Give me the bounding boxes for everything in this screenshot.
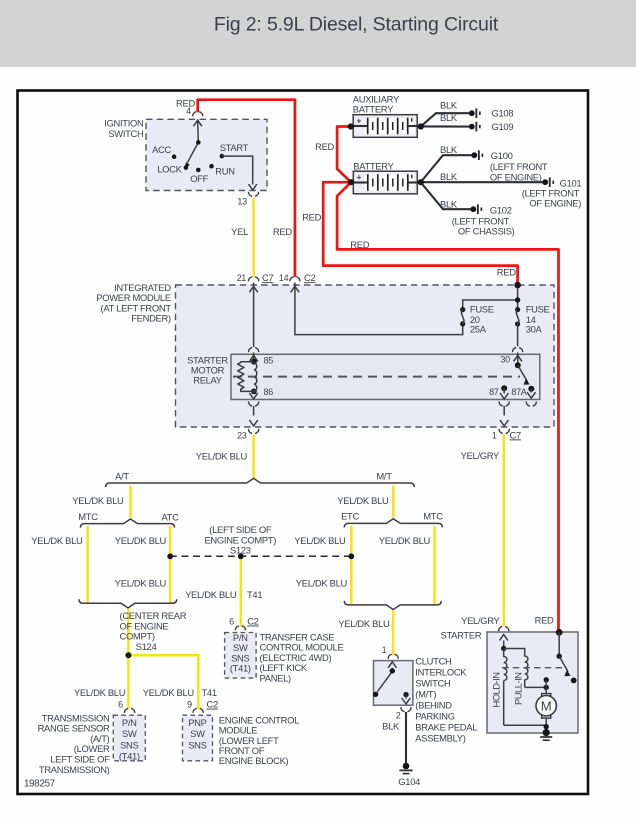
IPM connector C2 pin 14 [290,277,300,282]
ground G108 [469,108,513,119]
svg-text:YEL/DK BLU: YEL/DK BLU [337,495,389,506]
svg-text:ASSEMBLY): ASSEMBLY) [415,733,465,744]
relay pin 87A exit arrow [530,389,532,393]
svg-text:INTERLOCK: INTERLOCK [415,667,467,678]
clutch interlock switch connector pin 2 [401,707,411,712]
svg-text:21: 21 [237,273,247,283]
wire relay 87 to IPM pin 1 [503,406,505,416]
split brace MTC | ATC [80,519,174,528]
svg-text:(CENTER REAR: (CENTER REAR [120,610,187,621]
svg-text:M/T: M/T [376,471,392,482]
wire BLK battery to G101 [421,181,543,183]
svg-text:YEL/DK BLU: YEL/DK BLU [72,495,124,506]
svg-text:SNS: SNS [188,739,206,750]
split brace ETC | MTC [344,519,442,528]
svg-text:(M/T): (M/T) [415,689,436,700]
svg-text:RUN: RUN [215,166,234,177]
svg-text:FUSE: FUSE [470,303,494,314]
IPM exit connector pin 23 [249,429,259,434]
TRS connector pin 6 [125,708,135,713]
wire ETC [350,526,353,604]
svg-text:RED: RED [535,614,554,625]
svg-text:P/N: P/N [122,717,137,728]
wire YEL/GRY from IPM 1 to starter [503,435,506,627]
IPM exit connector C7 pin 1 [499,429,509,434]
svg-text:23: 23 [237,430,247,440]
svg-text:ETC: ETC [341,511,359,522]
svg-text:RED: RED [497,267,516,278]
split brace A/T | M/T [106,478,415,487]
svg-text:YEL/DK BLU: YEL/DK BLU [338,618,390,629]
wire ATC [169,526,172,603]
svg-text:T41: T41 [247,589,262,600]
svg-text:OF ENGINE): OF ENGINE) [490,171,542,182]
svg-text:ACC: ACC [152,144,171,155]
svg-text:6: 6 [229,617,234,627]
relay coil (pins 85-86) [238,359,274,397]
transfer case control module box [225,633,257,679]
svg-text:YEL/GRY: YEL/GRY [461,615,500,626]
IPM connector C7 pin 21 [249,277,259,282]
svg-text:1: 1 [382,645,387,655]
svg-text:BLK: BLK [440,171,458,182]
svg-text:RED: RED [350,239,369,250]
ignition switch box [146,119,267,190]
starter motor relay box [231,354,540,399]
wire MTC left [86,526,89,603]
svg-text:G108: G108 [492,108,514,119]
IPM internal feed junction to fuses [463,285,518,310]
wire YEL/DK BLU from IPM 23 [252,435,255,479]
relay switch arm 30 to 87A [515,362,521,368]
wire BLK aux battery to G109 [421,125,470,127]
svg-text:C7: C7 [510,429,521,440]
wire BLK battery to G100 [421,155,473,182]
svg-text:PNP: PNP [188,717,206,728]
hold-in coil [504,649,507,681]
starter solenoid switch [556,629,563,636]
svg-text:RELAY: RELAY [193,375,223,386]
ECM connector C2 pin 9 [193,708,203,713]
ground G102 (left front of chassis) [470,204,511,215]
starter ground [540,729,552,740]
pull-in coil [504,649,525,652]
svg-text:YEL/DK BLU: YEL/DK BLU [74,687,126,698]
engine control module box [183,715,213,761]
svg-text:PARKING: PARKING [415,711,454,722]
svg-text:RED: RED [315,141,334,152]
wire RED battery to starter feed (horizontal y=249) [337,182,558,630]
svg-text:+: + [356,116,361,126]
svg-text:HOLD-IN: HOLD-IN [491,672,502,707]
svg-text:+: + [357,172,362,182]
svg-text:FENDER): FENDER) [131,313,171,324]
fuse 20 25A [460,303,494,334]
svg-text:9: 9 [187,700,192,710]
diagram border frame [18,91,589,795]
ignition switch internals [152,120,257,190]
TCM connector C2 pin 6 [235,626,245,631]
svg-text:YEL/DK BLU: YEL/DK BLU [379,535,431,546]
fuse 14 30A [515,303,550,334]
relay internal dashed line [233,376,520,378]
wire A/T branch [129,486,132,518]
wire RED aux battery to battery [337,127,351,183]
merge brace right (to clutch switch) [344,601,441,610]
svg-text:YEL/DK BLU: YEL/DK BLU [31,535,83,546]
starter pin arrow (yel/gry feed) [500,635,508,641]
svg-text:YEL/DK BLU: YEL/DK BLU [115,577,167,588]
svg-text:6: 6 [118,700,123,710]
svg-text:G104: G104 [398,776,420,787]
clutch interlock switch internals [373,662,410,704]
svg-text:BLK: BLK [440,198,458,209]
ground G101 (left front of engine) [542,177,581,188]
svg-text:TRANSMISSION): TRANSMISSION) [39,764,110,775]
ignition pin 13 connector [248,192,258,197]
starter connector (yel/gry) [499,627,509,632]
svg-text:1: 1 [492,430,497,440]
node S124 junction dot [125,652,131,658]
svg-text:A/T: A/T [115,471,129,482]
svg-text:4: 4 [186,106,191,116]
svg-text:YEL/DK BLU: YEL/DK BLU [143,687,195,698]
svg-text:14: 14 [279,273,289,283]
svg-text:SNS: SNS [120,739,138,750]
svg-text:OF CHASSIS): OF CHASSIS) [458,225,515,236]
svg-text:YEL/DK BLU: YEL/DK BLU [296,577,348,588]
svg-text:CLUTCH: CLUTCH [415,656,451,667]
svg-text:C2: C2 [247,616,258,627]
starter box [487,632,578,733]
svg-text:YEL/GRY: YEL/GRY [461,450,500,461]
svg-text:C7: C7 [262,272,273,283]
svg-text:Fig 2: 5.9L Diesel, Starting C: Fig 2: 5.9L Diesel, Starting Circuit [214,14,499,36]
wire relay 86 to IPM pin 23 [253,406,255,416]
svg-text:87: 87 [489,387,499,397]
relay pin 86 exit arrow [253,391,255,393]
svg-text:(T41): (T41) [119,751,140,762]
svg-text:85: 85 [264,355,274,365]
svg-text:RED: RED [302,212,321,223]
svg-text:BATTERY: BATTERY [353,161,394,172]
svg-text:BLK: BLK [440,144,458,155]
ground G109 [469,121,513,132]
svg-text:198257: 198257 [24,779,55,790]
wire BLK aux battery to G108 [421,113,470,126]
svg-text:SWITCH: SWITCH [108,128,143,139]
svg-text:BLK: BLK [382,721,400,732]
svg-text:FUSE: FUSE [526,303,550,314]
svg-text:OF ENGINE): OF ENGINE) [529,198,581,209]
node S123 junction dots [167,553,173,559]
svg-text:YEL: YEL [231,226,248,237]
wire fuse14 to relay pin 30 [517,324,519,346]
wire RED ignition pin4 to IPM C2-14 [198,100,295,277]
svg-text:BATTERY: BATTERY [353,104,394,115]
header bar [0,0,636,67]
svg-text:(BEHIND: (BEHIND [415,700,452,711]
svg-text:SW: SW [122,728,137,739]
dashed mechanical link [502,667,564,669]
svg-text:START: START [220,142,249,153]
svg-text:30A: 30A [526,323,543,334]
svg-text:(T41): (T41) [230,663,251,674]
clutch interlock switch connector pin 1 [388,654,398,659]
ground G100 (left front of engine) [471,150,512,161]
svg-text:BLK: BLK [440,112,458,123]
svg-text:T41: T41 [202,687,217,698]
wire MTC right [433,526,436,604]
svg-text:BRAKE PEDAL: BRAKE PEDAL [415,722,477,733]
svg-text:86: 86 [264,387,274,397]
svg-text:PANEL): PANEL) [260,672,292,683]
wire RED battery to IPM fuse feed [323,182,517,284]
wire BLK clutch switch to G104 [405,712,407,763]
svg-text:YEL/DK BLU: YEL/DK BLU [185,589,237,600]
wire S124 branch to ECM pin 9 [128,655,198,709]
svg-text:MTC: MTC [78,511,98,522]
relay connector pin 85 [249,348,259,353]
svg-text:ENGINE BLOCK): ENGINE BLOCK) [219,755,289,766]
wire YEL ignition pin13 to IPM C7-21 [252,198,255,277]
wire M/T branch [392,486,395,518]
IPM internal wire C2-14 to fuse 20 [295,283,463,335]
relay pin 87 exit arrow [501,385,507,391]
svg-text:YEL/DK BLU: YEL/DK BLU [294,535,346,546]
wire BLK battery to G102 [421,182,472,209]
svg-text:30: 30 [500,354,510,364]
wire merged right to clutch interlock pin 1 [392,610,395,655]
svg-text:PULL-IN: PULL-IN [513,673,524,705]
svg-text:RED: RED [273,226,292,237]
svg-text:C2: C2 [207,699,218,710]
svg-text:S124: S124 [136,641,157,652]
svg-text:YEL/DK BLU: YEL/DK BLU [196,451,248,462]
ground G104 [398,763,420,787]
battery terminal junctions [348,123,354,129]
clutch interlock switch box [374,661,413,706]
svg-text:BLK: BLK [440,99,458,110]
svg-text:STARTER: STARTER [441,630,482,641]
merge brace left (to S124) [79,599,177,608]
svg-text:MTC: MTC [423,511,443,522]
svg-text:(LEFT SIDE OF: (LEFT SIDE OF [209,524,272,535]
svg-text:OF ENGINE: OF ENGINE [120,620,169,631]
svg-text:G100: G100 [491,150,513,161]
relay connector pin 30 [513,348,523,353]
svg-text:IGNITION: IGNITION [104,118,143,129]
svg-text:ATC: ATC [161,512,179,523]
svg-text:G102: G102 [490,204,512,215]
svg-text:OFF: OFF [190,173,208,184]
wire S123 to TCM pin 6 (T41) [240,556,243,626]
svg-text:2: 2 [396,711,401,721]
integrated power module box [176,285,555,427]
svg-text:87A: 87A [511,387,526,397]
ignition pin 4 connector [193,112,203,117]
svg-text:C2: C2 [304,272,315,283]
svg-text:YEL/DK BLU: YEL/DK BLU [115,535,167,546]
svg-text:LOCK: LOCK [157,163,182,174]
svg-text:25A: 25A [470,323,487,334]
transmission range sensor box [113,715,145,761]
wire merged left to S124 and TRS pin 6 [127,609,130,710]
svg-text:13: 13 [237,196,247,206]
svg-text:G109: G109 [492,121,514,132]
svg-text:SWITCH: SWITCH [415,678,450,689]
svg-text:M: M [541,698,552,713]
starter internals [491,629,577,733]
svg-text:SW: SW [190,728,205,739]
